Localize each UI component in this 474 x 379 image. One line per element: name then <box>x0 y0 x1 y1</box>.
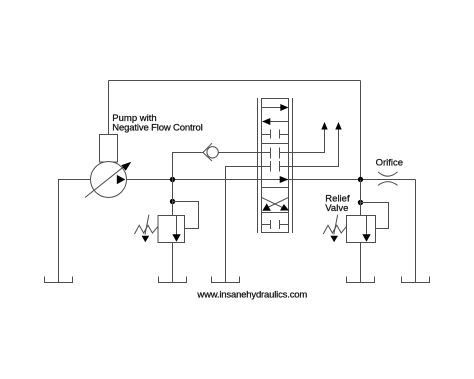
relief valve RV1 spring <box>135 225 158 234</box>
pump control actuator <box>100 135 118 163</box>
wire RV1 to tank <box>172 243 174 283</box>
valve divider 1 <box>262 143 289 145</box>
directional valve V1 outer left line <box>257 98 259 233</box>
tank T5 <box>402 277 430 283</box>
relief valve RV2 adjust arrow <box>334 215 338 235</box>
relief valve RV2 pilot loop <box>361 203 389 229</box>
wire check valve branch <box>173 153 204 180</box>
wire pilot line top <box>109 80 361 82</box>
pump P1 circle <box>91 162 127 198</box>
wire orifice drain down <box>415 180 417 283</box>
valve arrow left <box>270 121 289 123</box>
tank T3 <box>212 277 240 283</box>
tank T2 <box>159 277 187 283</box>
actuator arrow A <box>321 122 327 130</box>
node junction dot relief pilot left <box>170 199 175 204</box>
relief valve RV1 body <box>158 216 185 243</box>
wire port B to actuator arrow <box>280 130 339 167</box>
pump P1 variable arrow <box>85 165 126 197</box>
valve blocked port pair 1 <box>262 130 289 139</box>
relief valve RV2 internal arrow <box>366 216 368 235</box>
valve port line A stubs <box>271 148 280 159</box>
wire RV2 to tank <box>360 243 362 283</box>
relief valve RV1 internal arrow <box>176 216 178 235</box>
relief valve RV2 spring <box>323 225 346 234</box>
check valve CV1 <box>207 147 218 158</box>
svg-text:Valve: Valve <box>325 203 348 214</box>
node junction dot before orifice <box>358 177 363 182</box>
wire port A to actuator arrow <box>280 130 325 153</box>
wire suction line <box>59 180 91 283</box>
relief valve RV2 body <box>347 216 376 243</box>
wire tank return from valve <box>226 167 271 283</box>
valve port line B stubs <box>271 161 280 172</box>
wire check valve to valve port <box>218 152 270 154</box>
relief valve RV2 supply line <box>360 180 362 216</box>
node junction dot relief pilot right <box>358 200 363 205</box>
directional valve V1 envelope <box>262 99 289 233</box>
valve blocked port pair 2 <box>262 220 289 229</box>
valve bypass arrow <box>280 176 289 183</box>
orifice O1 <box>378 172 398 186</box>
valve crossed arrows <box>262 197 289 208</box>
valve divider 2 <box>262 187 289 189</box>
directional valve V1 outer right line <box>292 98 294 233</box>
wire pilot left vertical <box>108 81 110 135</box>
svg-text:Orifice: Orifice <box>376 158 403 169</box>
svg-text:Negative Flow Control: Negative Flow Control <box>112 123 202 134</box>
relief valve RV1 pilot loop <box>173 202 199 229</box>
valve arrow right top <box>262 107 282 109</box>
pump P1 flow triangle <box>117 175 126 184</box>
svg-text:www.insanehydraulics.com: www.insanehydraulics.com <box>196 289 307 300</box>
node junction dot pump outlet <box>170 177 175 182</box>
tank T4 <box>347 277 375 283</box>
relief valve RV1 adjust arrow <box>145 215 149 235</box>
wire pilot right vertical <box>360 81 362 180</box>
wire main pressure line <box>127 179 416 181</box>
tank T1 <box>45 277 73 283</box>
valve divider 3 <box>262 212 289 214</box>
actuator arrow B <box>335 122 341 130</box>
relief valve RV1 supply line <box>172 180 174 216</box>
